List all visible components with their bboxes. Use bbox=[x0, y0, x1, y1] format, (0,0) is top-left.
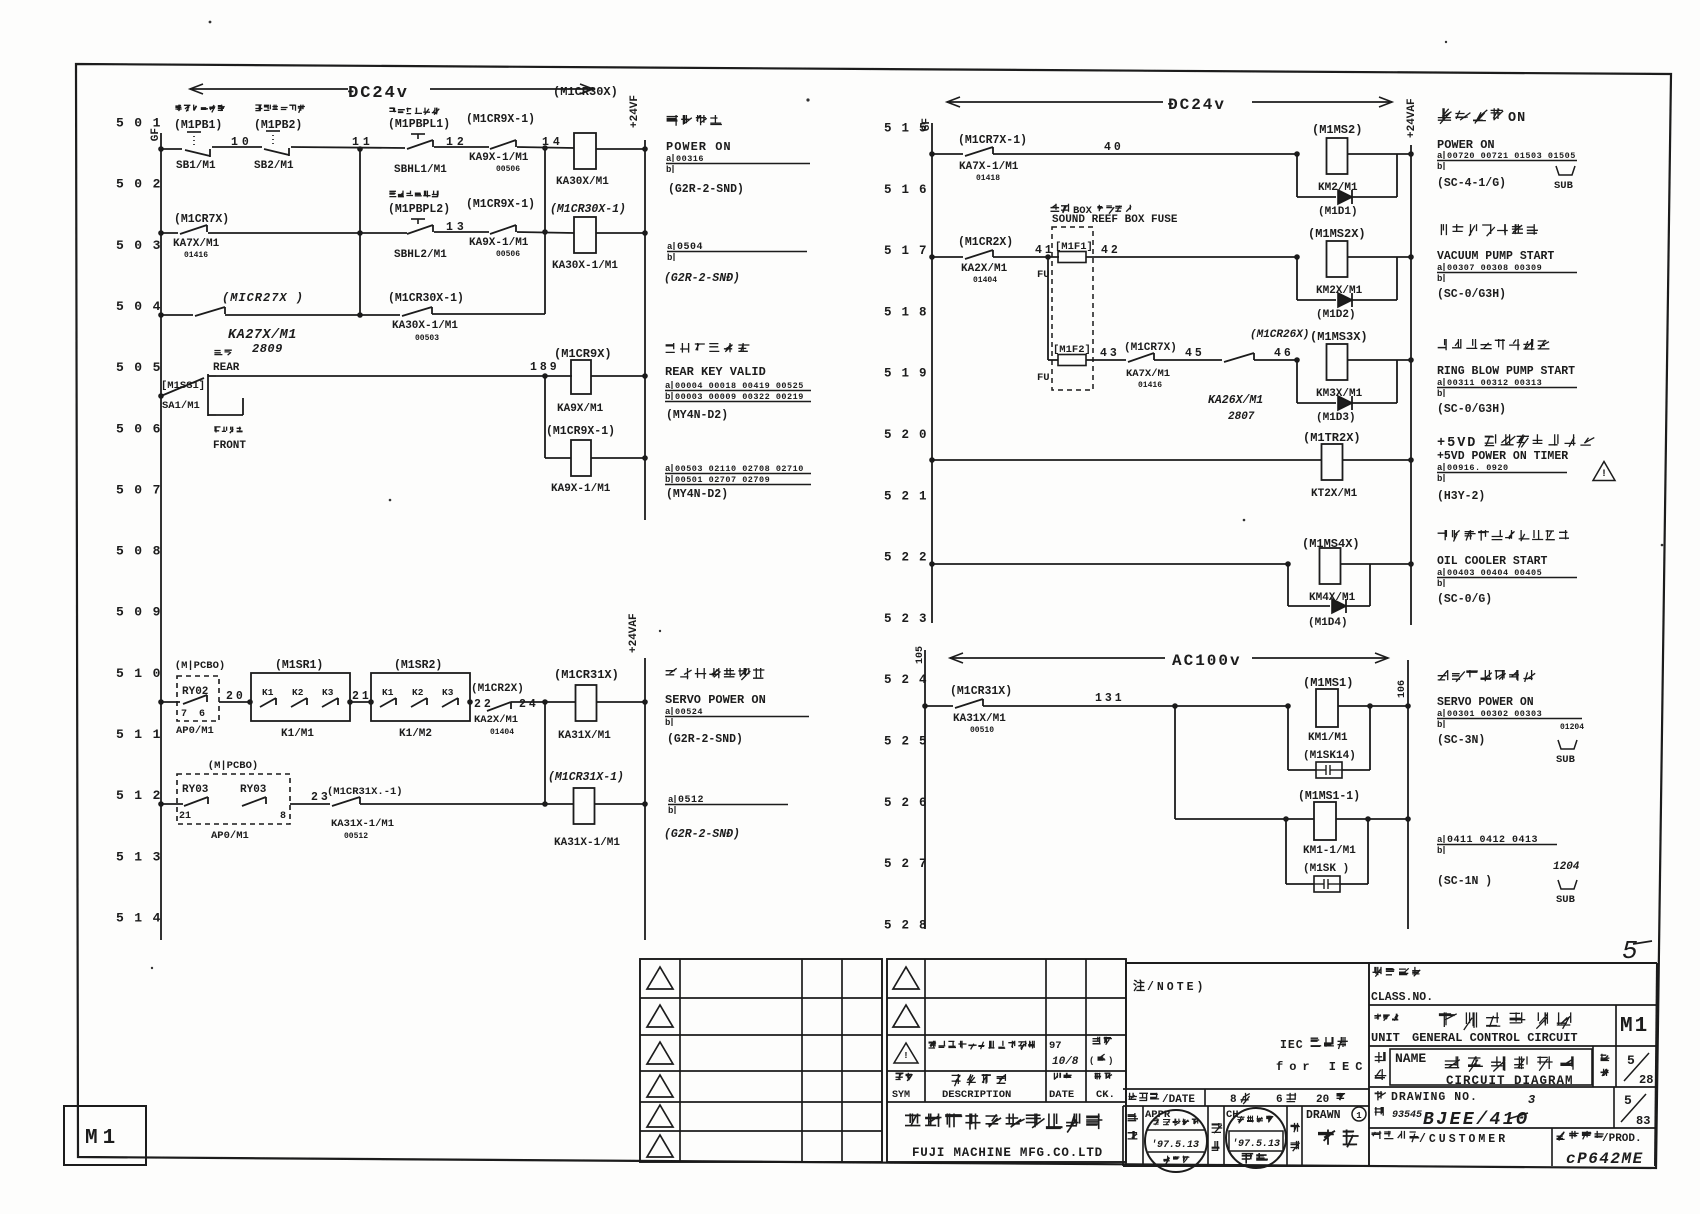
svg-text:(M1PB1): (M1PB1) bbox=[174, 119, 222, 132]
warning triangle bbox=[1593, 462, 1615, 481]
svg-text:SERVO POWER ON: SERVO POWER ON bbox=[1437, 696, 1534, 709]
svg-text:(M1CR30X-1): (M1CR30X-1) bbox=[550, 203, 626, 216]
node branch 524 bbox=[1172, 703, 1178, 709]
svg-text:a: a bbox=[1437, 709, 1443, 719]
svg-text:5: 5 bbox=[1622, 936, 1638, 966]
left bus GF (left half) bbox=[160, 133, 162, 940]
svg-text:a: a bbox=[668, 795, 674, 805]
svg-text:a: a bbox=[1437, 835, 1443, 845]
svg-text:(M1MS4X): (M1MS4X) bbox=[1302, 537, 1360, 551]
check stamp 2 bbox=[1226, 1108, 1286, 1168]
wire 501 node 14 bbox=[517, 147, 574, 148]
svg-text:KA30X-1/M1: KA30X-1/M1 bbox=[392, 320, 458, 332]
svg-text:01204: 01204 bbox=[1560, 723, 1584, 732]
svg-text:cP642ME: cP642ME bbox=[1566, 1150, 1644, 1168]
svg-text:(SC-0/G3H): (SC-0/G3H) bbox=[1437, 288, 1506, 301]
svg-text:SOUND REEF BOX FUSE: SOUND REEF BOX FUSE bbox=[1052, 214, 1178, 226]
svg-text:(M1CR2X): (M1CR2X) bbox=[471, 683, 524, 695]
wire 510 coil to +24VAF bus bbox=[597, 701, 645, 703]
svg-text:1204: 1204 bbox=[1553, 861, 1580, 873]
svg-text:(M1D4): (M1D4) bbox=[1308, 617, 1348, 629]
svg-text:+24VAF: +24VAF bbox=[628, 613, 640, 653]
svg-text:43: 43 bbox=[1100, 347, 1120, 360]
wire 519 node 46 bbox=[1254, 359, 1297, 361]
svg-text:00003 00009 00322 00219: 00003 00009 00322 00219 bbox=[675, 392, 804, 402]
sheet code box M1 bottom-left bbox=[64, 1106, 146, 1165]
svg-text:5: 5 bbox=[1627, 1053, 1635, 1068]
svg-text:(G2R-2-SNĐ): (G2R-2-SNĐ) bbox=[664, 272, 740, 285]
svg-text:13: 13 bbox=[446, 221, 468, 234]
date row bbox=[1123, 1088, 1369, 1090]
svg-text:KA30X/M1: KA30X/M1 bbox=[556, 176, 609, 188]
svg-text:(SC-1N ): (SC-1N ) bbox=[1437, 875, 1492, 888]
svg-text:(: ( bbox=[1089, 1056, 1094, 1066]
svg-text:506: 506 bbox=[116, 421, 171, 436]
svg-text:10/8: 10/8 bbox=[1052, 1056, 1079, 1068]
svg-text:b: b bbox=[1437, 846, 1442, 856]
svg-text:ĐC24v: ĐC24v bbox=[348, 84, 409, 103]
svg-text:(M1CR31X): (M1CR31X) bbox=[554, 668, 619, 682]
svg-text:20: 20 bbox=[1316, 1094, 1329, 1106]
wire 520 coil to bus bbox=[1343, 459, 1411, 461]
svg-text:523: 523 bbox=[884, 612, 937, 626]
svg-text:(M1PB2): (M1PB2) bbox=[254, 119, 302, 132]
svg-text:KA31X-1/M1: KA31X-1/M1 bbox=[554, 837, 620, 849]
svg-text:CLASS.NO.: CLASS.NO. bbox=[1371, 991, 1433, 1004]
contactor coil KM2/M1 (M1MS2) bbox=[1327, 138, 1348, 174]
node rail junction 524 bbox=[922, 703, 928, 709]
svg-text:FRONT: FRONT bbox=[213, 440, 246, 452]
svg-text:a: a bbox=[667, 242, 673, 252]
svg-text:40: 40 bbox=[1104, 141, 1124, 154]
scan specks bbox=[209, 21, 212, 24]
svg-text:ĐC24v: ĐC24v bbox=[1168, 96, 1226, 114]
svg-text:518: 518 bbox=[884, 305, 937, 319]
svg-text:(M1D2): (M1D2) bbox=[1316, 309, 1356, 321]
svg-text:01416: 01416 bbox=[1138, 381, 1162, 390]
svg-text:(M1SR1): (M1SR1) bbox=[275, 659, 323, 672]
svg-text:SUB: SUB bbox=[1556, 754, 1576, 766]
node rail junction 501 bbox=[158, 146, 164, 152]
svg-text:SA1/M1: SA1/M1 bbox=[162, 400, 200, 412]
contact KA30X-1/M1 (M1CR30X-1) rung 504 bbox=[402, 307, 432, 316]
contactor coil KM4X/M1 (M1MS4X) bbox=[1320, 548, 1341, 584]
flywheel diode M1D3 bbox=[1296, 360, 1298, 403]
right bus 106 (AC section) bbox=[1407, 660, 1409, 929]
svg-text:507: 507 bbox=[116, 482, 171, 497]
timer coil KT2X/M1 (M1TR2X) bbox=[1322, 444, 1343, 480]
illuminated pushbutton SBHL1/M1 (M1PBPL1) bbox=[407, 140, 433, 149]
header DC24V right section bbox=[947, 101, 1163, 103]
svg-text:M1: M1 bbox=[1620, 1015, 1649, 1038]
svg-text:528: 528 bbox=[884, 918, 937, 932]
svg-text:01416: 01416 bbox=[184, 251, 208, 260]
svg-text:00301 00302 00303: 00301 00302 00303 bbox=[1447, 709, 1542, 719]
vertical wire fuse branch 517-519 bbox=[1047, 257, 1049, 360]
PCB relay contact RY02 (M1PCBO) dashed box bbox=[177, 676, 219, 721]
svg-text:b: b bbox=[665, 718, 670, 728]
svg-text:5: 5 bbox=[1624, 1093, 1632, 1108]
svg-text:(M1MS1-1): (M1MS1-1) bbox=[1298, 790, 1360, 803]
svg-text:(M1CR9X-1): (M1CR9X-1) bbox=[466, 113, 535, 126]
svg-text:a: a bbox=[1437, 378, 1443, 388]
svg-text:46: 46 bbox=[1274, 347, 1294, 360]
svg-text:(M|PCBO): (M|PCBO) bbox=[175, 660, 225, 672]
svg-text:1: 1 bbox=[1356, 1111, 1362, 1121]
svg-text:IEC: IEC bbox=[1280, 1039, 1304, 1052]
svg-text:(M1CR26X): (M1CR26X) bbox=[1250, 329, 1309, 341]
svg-text:RY03: RY03 bbox=[182, 784, 209, 796]
svg-text:6: 6 bbox=[199, 709, 205, 720]
wire 510 node 21 bbox=[350, 701, 371, 703]
svg-text:97: 97 bbox=[1049, 1040, 1062, 1052]
svg-text:/NOTE): /NOTE) bbox=[1147, 981, 1206, 994]
svg-text:b: b bbox=[666, 165, 671, 175]
svg-text:KA9X-1/M1: KA9X-1/M1 bbox=[469, 152, 529, 164]
relay coil KA30X-1/M1 (M1CR30X-1) bbox=[574, 217, 596, 253]
svg-text:K3: K3 bbox=[322, 687, 334, 698]
svg-text:00916. 0920: 00916. 0920 bbox=[1447, 463, 1509, 473]
svg-text:POWER ON: POWER ON bbox=[1437, 138, 1495, 152]
svg-text:KA31X/M1: KA31X/M1 bbox=[558, 730, 611, 742]
illuminated pushbutton SBHL2/M1 (M1PBPL2) bbox=[407, 225, 433, 234]
svg-text:00510: 00510 bbox=[970, 726, 994, 735]
svg-text:00403 00404 00405: 00403 00404 00405 bbox=[1447, 568, 1542, 578]
right bus +24VF (left half upper) bbox=[644, 140, 646, 520]
svg-text:7: 7 bbox=[181, 709, 187, 720]
svg-text:00506: 00506 bbox=[496, 250, 520, 259]
wire 522 coil to bus bbox=[1341, 563, 1411, 565]
svg-text:(M1CR9X-1): (M1CR9X-1) bbox=[546, 425, 615, 438]
vertical wire node 11 (501-504) bbox=[359, 148, 361, 315]
svg-text:/PROD.: /PROD. bbox=[1602, 1133, 1642, 1145]
svg-text:00503: 00503 bbox=[415, 334, 439, 343]
vertical wire 505 to 506 branch bbox=[544, 376, 546, 458]
svg-text:K1/M2: K1/M2 bbox=[399, 728, 432, 740]
svg-text:504: 504 bbox=[116, 299, 171, 314]
svg-text:SUB: SUB bbox=[1556, 894, 1576, 906]
svg-text:+24VF: +24VF bbox=[629, 95, 641, 128]
svg-text:21: 21 bbox=[179, 811, 191, 822]
contactor coil KM1/M1 (M1MS1) bbox=[1316, 689, 1338, 727]
wire 510 to coil bbox=[511, 701, 576, 703]
svg-text:/CUSTOMER: /CUSTOMER bbox=[1419, 1133, 1508, 1146]
svg-text:KA9X-1/M1: KA9X-1/M1 bbox=[551, 483, 611, 495]
svg-text:DRAWING NO.: DRAWING NO. bbox=[1391, 1091, 1478, 1104]
header AC100V section bbox=[950, 657, 1165, 659]
svg-text:+5VD POWER ON TIMER: +5VD POWER ON TIMER bbox=[1437, 450, 1568, 463]
svg-text:(M1CR9X-1): (M1CR9X-1) bbox=[466, 198, 535, 211]
svg-text:a: a bbox=[665, 381, 671, 391]
svg-text:(M1MS2X): (M1MS2X) bbox=[1308, 227, 1366, 241]
pushbutton SB2/M1 (M1PB2) bbox=[264, 148, 289, 156]
node diode branch 517 bbox=[1294, 254, 1300, 260]
svg-text:SB2/M1: SB2/M1 bbox=[254, 160, 294, 172]
svg-text:UNIT: UNIT bbox=[1371, 1031, 1400, 1045]
wire rung 522 bbox=[932, 563, 1288, 565]
svg-text:(M1CR7X): (M1CR7X) bbox=[1124, 342, 1177, 354]
contact KA9X-1/M1 (M1CR9X-1) rung 503 bbox=[490, 225, 516, 234]
wire 506 branch to coil bbox=[545, 457, 571, 459]
svg-text:01418: 01418 bbox=[976, 174, 1000, 183]
svg-text:b: b bbox=[1437, 389, 1442, 399]
node rail junction 503 bbox=[158, 230, 164, 236]
svg-text:8: 8 bbox=[280, 811, 286, 822]
svg-text:b: b bbox=[1437, 474, 1442, 484]
wire 515 node 40 bbox=[993, 153, 1297, 155]
svg-text:KM1/M1: KM1/M1 bbox=[1308, 732, 1348, 744]
wire rung 526 bbox=[1175, 818, 1314, 820]
svg-text:K1: K1 bbox=[262, 687, 274, 698]
svg-text:(M1PBPL2): (M1PBPL2) bbox=[388, 203, 450, 216]
contact KA2X/M1 (M1CR2X) rung 510 bbox=[467, 699, 473, 705]
svg-text:505: 505 bbox=[116, 360, 171, 375]
svg-text:(SC-3N): (SC-3N) bbox=[1437, 734, 1485, 747]
wire 506 coil to bus bbox=[591, 457, 645, 459]
svg-text:6: 6 bbox=[1276, 1094, 1283, 1106]
svg-text:00004 00018 00419 00525: 00004 00018 00419 00525 bbox=[675, 381, 804, 391]
svg-text:527: 527 bbox=[884, 857, 937, 871]
svg-text:522: 522 bbox=[884, 551, 937, 565]
svg-text:00512: 00512 bbox=[344, 832, 368, 841]
svg-text:K2: K2 bbox=[292, 687, 304, 698]
node parallel 524 bbox=[1285, 703, 1291, 709]
contact KA7X/M1 (M1CR7X) rung 503 bbox=[161, 232, 178, 234]
node rail junction 510 bbox=[158, 699, 164, 705]
svg-text:(M1CR30X): (M1CR30X) bbox=[553, 85, 618, 99]
svg-text:00524: 00524 bbox=[675, 707, 703, 717]
svg-text:514: 514 bbox=[116, 910, 171, 925]
svg-text:(M1MS3X): (M1MS3X) bbox=[1310, 330, 1368, 344]
approval strip cells bbox=[1122, 1106, 1124, 1166]
svg-text:b: b bbox=[665, 392, 670, 402]
svg-text:BJEE/41Θ: BJEE/41Θ bbox=[1423, 1110, 1529, 1130]
svg-text:b: b bbox=[1437, 162, 1442, 172]
wire 503 node 14 to coil bbox=[517, 232, 574, 233]
svg-text:CIRCUIT DIAGRAM: CIRCUIT DIAGRAM bbox=[1446, 1074, 1574, 1088]
svg-text:(M1CR31X-1): (M1CR31X-1) bbox=[548, 771, 624, 784]
svg-text:KA7X-1/M1: KA7X-1/M1 bbox=[959, 161, 1019, 173]
svg-text:a: a bbox=[666, 154, 672, 164]
svg-text:SYM: SYM bbox=[892, 1090, 910, 1101]
svg-text:(SC-0/G3H): (SC-0/G3H) bbox=[1437, 403, 1506, 416]
svg-text:(H3Y-2): (H3Y-2) bbox=[1437, 490, 1485, 503]
svg-text:KA9X-1/M1: KA9X-1/M1 bbox=[469, 237, 529, 249]
svg-text:for IEC: for IEC bbox=[1276, 1060, 1368, 1074]
svg-text:b: b bbox=[668, 806, 673, 816]
svg-text:00501 02707 02709: 00501 02707 02709 bbox=[675, 475, 770, 485]
svg-text:189: 189 bbox=[530, 361, 560, 374]
fuse M1F2 bbox=[1048, 359, 1058, 361]
svg-text:524: 524 bbox=[884, 673, 937, 687]
svg-text:00720 00721 01503 01505: 00720 00721 01503 01505 bbox=[1447, 151, 1576, 161]
flywheel diode M1D1 bbox=[1296, 154, 1298, 197]
wire FRONT stub bbox=[216, 414, 243, 416]
svg-text:(M1SR2): (M1SR2) bbox=[394, 659, 442, 672]
svg-text:(M|PCBO): (M|PCBO) bbox=[208, 760, 258, 772]
svg-text:(SC-4-1/G): (SC-4-1/G) bbox=[1437, 177, 1506, 190]
left bus GF (right half) bbox=[931, 123, 933, 623]
vertical wire node 14 (501-504) bbox=[544, 148, 546, 314]
wire rung 504 to branch 11 bbox=[225, 314, 360, 316]
svg-text:'97.5.13: '97.5.13 bbox=[1151, 1139, 1199, 1151]
svg-text:M1: M1 bbox=[85, 1127, 120, 1150]
svg-text:RY03: RY03 bbox=[240, 784, 267, 796]
svg-text:(M1PBPL1): (M1PBPL1) bbox=[388, 118, 450, 131]
svg-text:ON: ON bbox=[1508, 111, 1526, 126]
svg-text:105: 105 bbox=[915, 646, 926, 664]
svg-text:KA27X/M1: KA27X/M1 bbox=[228, 328, 297, 343]
revision triangles middle column bbox=[893, 967, 919, 989]
note cell bbox=[1126, 962, 1657, 964]
svg-text:(M1TR2X): (M1TR2X) bbox=[1303, 431, 1361, 445]
svg-text:(M1CR2X): (M1CR2X) bbox=[958, 236, 1013, 249]
svg-text:517: 517 bbox=[884, 244, 937, 258]
svg-text:DRAWN: DRAWN bbox=[1306, 1109, 1341, 1122]
svg-text:AP0/M1: AP0/M1 bbox=[176, 725, 214, 737]
svg-text:(G2R-2-SNĐ): (G2R-2-SNĐ) bbox=[664, 828, 740, 841]
svg-text:+24VAF: +24VAF bbox=[1406, 98, 1418, 138]
svg-text:509: 509 bbox=[116, 605, 171, 620]
svg-text:508: 508 bbox=[116, 544, 171, 559]
svg-text:521: 521 bbox=[884, 489, 937, 503]
svg-text:K3: K3 bbox=[442, 687, 454, 698]
M1 cell bbox=[1615, 1005, 1617, 1046]
node diode branch 522 bbox=[1285, 561, 1291, 567]
svg-text:42: 42 bbox=[1101, 244, 1121, 257]
svg-text:b: b bbox=[1437, 720, 1442, 730]
pseudo-kanji glyph strokes (CJK approximations) bbox=[175, 105, 1609, 1164]
svg-text:KA9X/M1: KA9X/M1 bbox=[557, 403, 604, 415]
svg-text:(M1CR30X-1): (M1CR30X-1) bbox=[388, 292, 464, 305]
contact KA27X/M1 (M1CR27X) rung 504 bbox=[161, 314, 193, 316]
svg-text:KA7X/M1: KA7X/M1 bbox=[173, 238, 220, 250]
left bus 105 (AC section) bbox=[924, 650, 926, 929]
selector switch SA1/M1 (M1SS1) REAR/FRONT bbox=[158, 393, 164, 399]
svg-text:(M1CR31X): (M1CR31X) bbox=[950, 685, 1012, 698]
fuse box dashed (sound reef box) bbox=[1052, 227, 1093, 390]
svg-text:83: 83 bbox=[1636, 1114, 1650, 1128]
node 505 branch bbox=[542, 373, 548, 379]
wire 519 node 43 bbox=[1086, 359, 1126, 361]
svg-text:KA26X/M1: KA26X/M1 bbox=[1208, 394, 1263, 407]
node rail junction 522 bbox=[929, 561, 935, 567]
svg-text:b: b bbox=[1437, 274, 1442, 284]
svg-text:SUB: SUB bbox=[1554, 180, 1574, 192]
vertical wire 524-526 branch bbox=[1174, 706, 1176, 819]
contactor coil KM2X/M1 (M1MS2X) bbox=[1327, 241, 1348, 277]
svg-text:28: 28 bbox=[1639, 1073, 1653, 1087]
svg-text:00316: 00316 bbox=[676, 154, 704, 164]
info table right bbox=[1368, 963, 1370, 1166]
svg-text:KA31X-1/M1: KA31X-1/M1 bbox=[331, 818, 394, 830]
svg-text:8: 8 bbox=[1230, 1094, 1237, 1106]
wire 505 coil to bus bbox=[591, 375, 645, 377]
svg-text:DESCRIPTION: DESCRIPTION bbox=[942, 1089, 1011, 1101]
wire 519 coil to bus bbox=[1348, 359, 1411, 361]
svg-text:(MY4N-D2): (MY4N-D2) bbox=[666, 409, 728, 422]
relay coil KA30X/M1 (M1CR30X) bbox=[574, 133, 596, 169]
svg-text:12: 12 bbox=[446, 136, 468, 149]
svg-text:00307 00308 00309: 00307 00308 00309 bbox=[1447, 263, 1542, 273]
svg-text:(M1SK ): (M1SK ) bbox=[1303, 863, 1349, 875]
svg-text:NAME: NAME bbox=[1395, 1051, 1426, 1066]
wire 503 coil to +24VF bus bbox=[596, 232, 645, 234]
svg-text:510: 510 bbox=[116, 666, 171, 681]
svg-text:(SC-0/G): (SC-0/G) bbox=[1437, 593, 1492, 606]
svg-text:a: a bbox=[1437, 263, 1443, 273]
wire 524 node 131 bbox=[983, 705, 1288, 707]
safety relay block M1SR1 box bbox=[251, 673, 350, 721]
svg-text:(M1D3): (M1D3) bbox=[1316, 412, 1356, 424]
svg-text:KT2X/M1: KT2X/M1 bbox=[1311, 488, 1358, 500]
svg-text:注: 注 bbox=[1133, 978, 1145, 994]
flywheel diode M1D4 bbox=[1287, 564, 1289, 606]
svg-text:AP0/M1: AP0/M1 bbox=[211, 830, 249, 842]
svg-text:FU: FU bbox=[1037, 372, 1050, 384]
svg-text:SBHL1/M1: SBHL1/M1 bbox=[394, 164, 447, 176]
svg-text:131: 131 bbox=[1095, 692, 1125, 705]
node junction before M1SR1 bbox=[247, 699, 253, 705]
right bus +24VAF (right half) bbox=[1410, 145, 1412, 625]
revision row 1 entry bbox=[894, 1043, 918, 1063]
svg-text:(M1D1): (M1D1) bbox=[1318, 206, 1358, 218]
svg-text:501: 501 bbox=[116, 116, 171, 131]
svg-text:513: 513 bbox=[116, 849, 171, 864]
svg-text:512: 512 bbox=[116, 788, 171, 803]
svg-text:(M1MS2): (M1MS2) bbox=[1312, 123, 1362, 137]
svg-text:526: 526 bbox=[884, 796, 937, 810]
svg-text:RING BLOW PUMP START: RING BLOW PUMP START bbox=[1437, 365, 1575, 378]
right bus +24VAF (left half lower) bbox=[644, 658, 646, 940]
svg-text:KA2X/M1: KA2X/M1 bbox=[474, 714, 518, 726]
svg-text:a: a bbox=[1437, 151, 1443, 161]
vertical wire 510-512 branch bbox=[544, 702, 546, 804]
svg-text:502: 502 bbox=[116, 177, 171, 192]
svg-text:520: 520 bbox=[884, 428, 937, 442]
wire 512 coil to +24VAF bus bbox=[595, 803, 645, 805]
wire 501 node 10 bbox=[212, 146, 262, 148]
svg-text:K2: K2 bbox=[412, 687, 424, 698]
svg-text:(M1CR7X): (M1CR7X) bbox=[174, 213, 229, 226]
wire rung 501 segment 1 bbox=[161, 148, 182, 150]
svg-text:525: 525 bbox=[884, 735, 937, 749]
svg-text:2807: 2807 bbox=[1228, 411, 1255, 423]
svg-text:OIL COOLER START: OIL COOLER START bbox=[1437, 555, 1548, 568]
svg-text:01404: 01404 bbox=[490, 728, 514, 737]
node rail junction 520 bbox=[929, 457, 935, 463]
wire 515 coil to bus bbox=[1348, 153, 1411, 155]
svg-text:2809: 2809 bbox=[252, 342, 283, 356]
wire 501 node 11 bbox=[291, 147, 405, 148]
pushbutton SB1/M1 (M1PB1) bbox=[185, 149, 210, 157]
wire 517 node 41 bbox=[993, 256, 1059, 258]
svg-text:KM1-1/M1: KM1-1/M1 bbox=[1303, 845, 1356, 857]
svg-text:45: 45 bbox=[1185, 347, 1205, 360]
svg-text:(M1CR31X.-1): (M1CR31X.-1) bbox=[327, 786, 403, 798]
svg-text:GENERAL CONTROL CIRCUIT: GENERAL CONTROL CIRCUIT bbox=[1412, 1031, 1578, 1045]
svg-text:(G2R-2-SND): (G2R-2-SND) bbox=[667, 733, 743, 746]
relay coil KA31X/M1 (M1CR31X) bbox=[576, 685, 597, 721]
svg-text:01404: 01404 bbox=[973, 276, 997, 285]
approval stamp 1 bbox=[1145, 1110, 1207, 1172]
svg-text:20: 20 bbox=[226, 690, 246, 703]
svg-text:516: 516 bbox=[884, 183, 937, 197]
svg-text:(G2R-2-SND): (G2R-2-SND) bbox=[668, 183, 744, 196]
svg-text:00311 00312 00313: 00311 00312 00313 bbox=[1447, 378, 1542, 388]
svg-text:AC100v: AC100v bbox=[1172, 652, 1242, 670]
svg-text:SB1/M1: SB1/M1 bbox=[176, 160, 216, 172]
